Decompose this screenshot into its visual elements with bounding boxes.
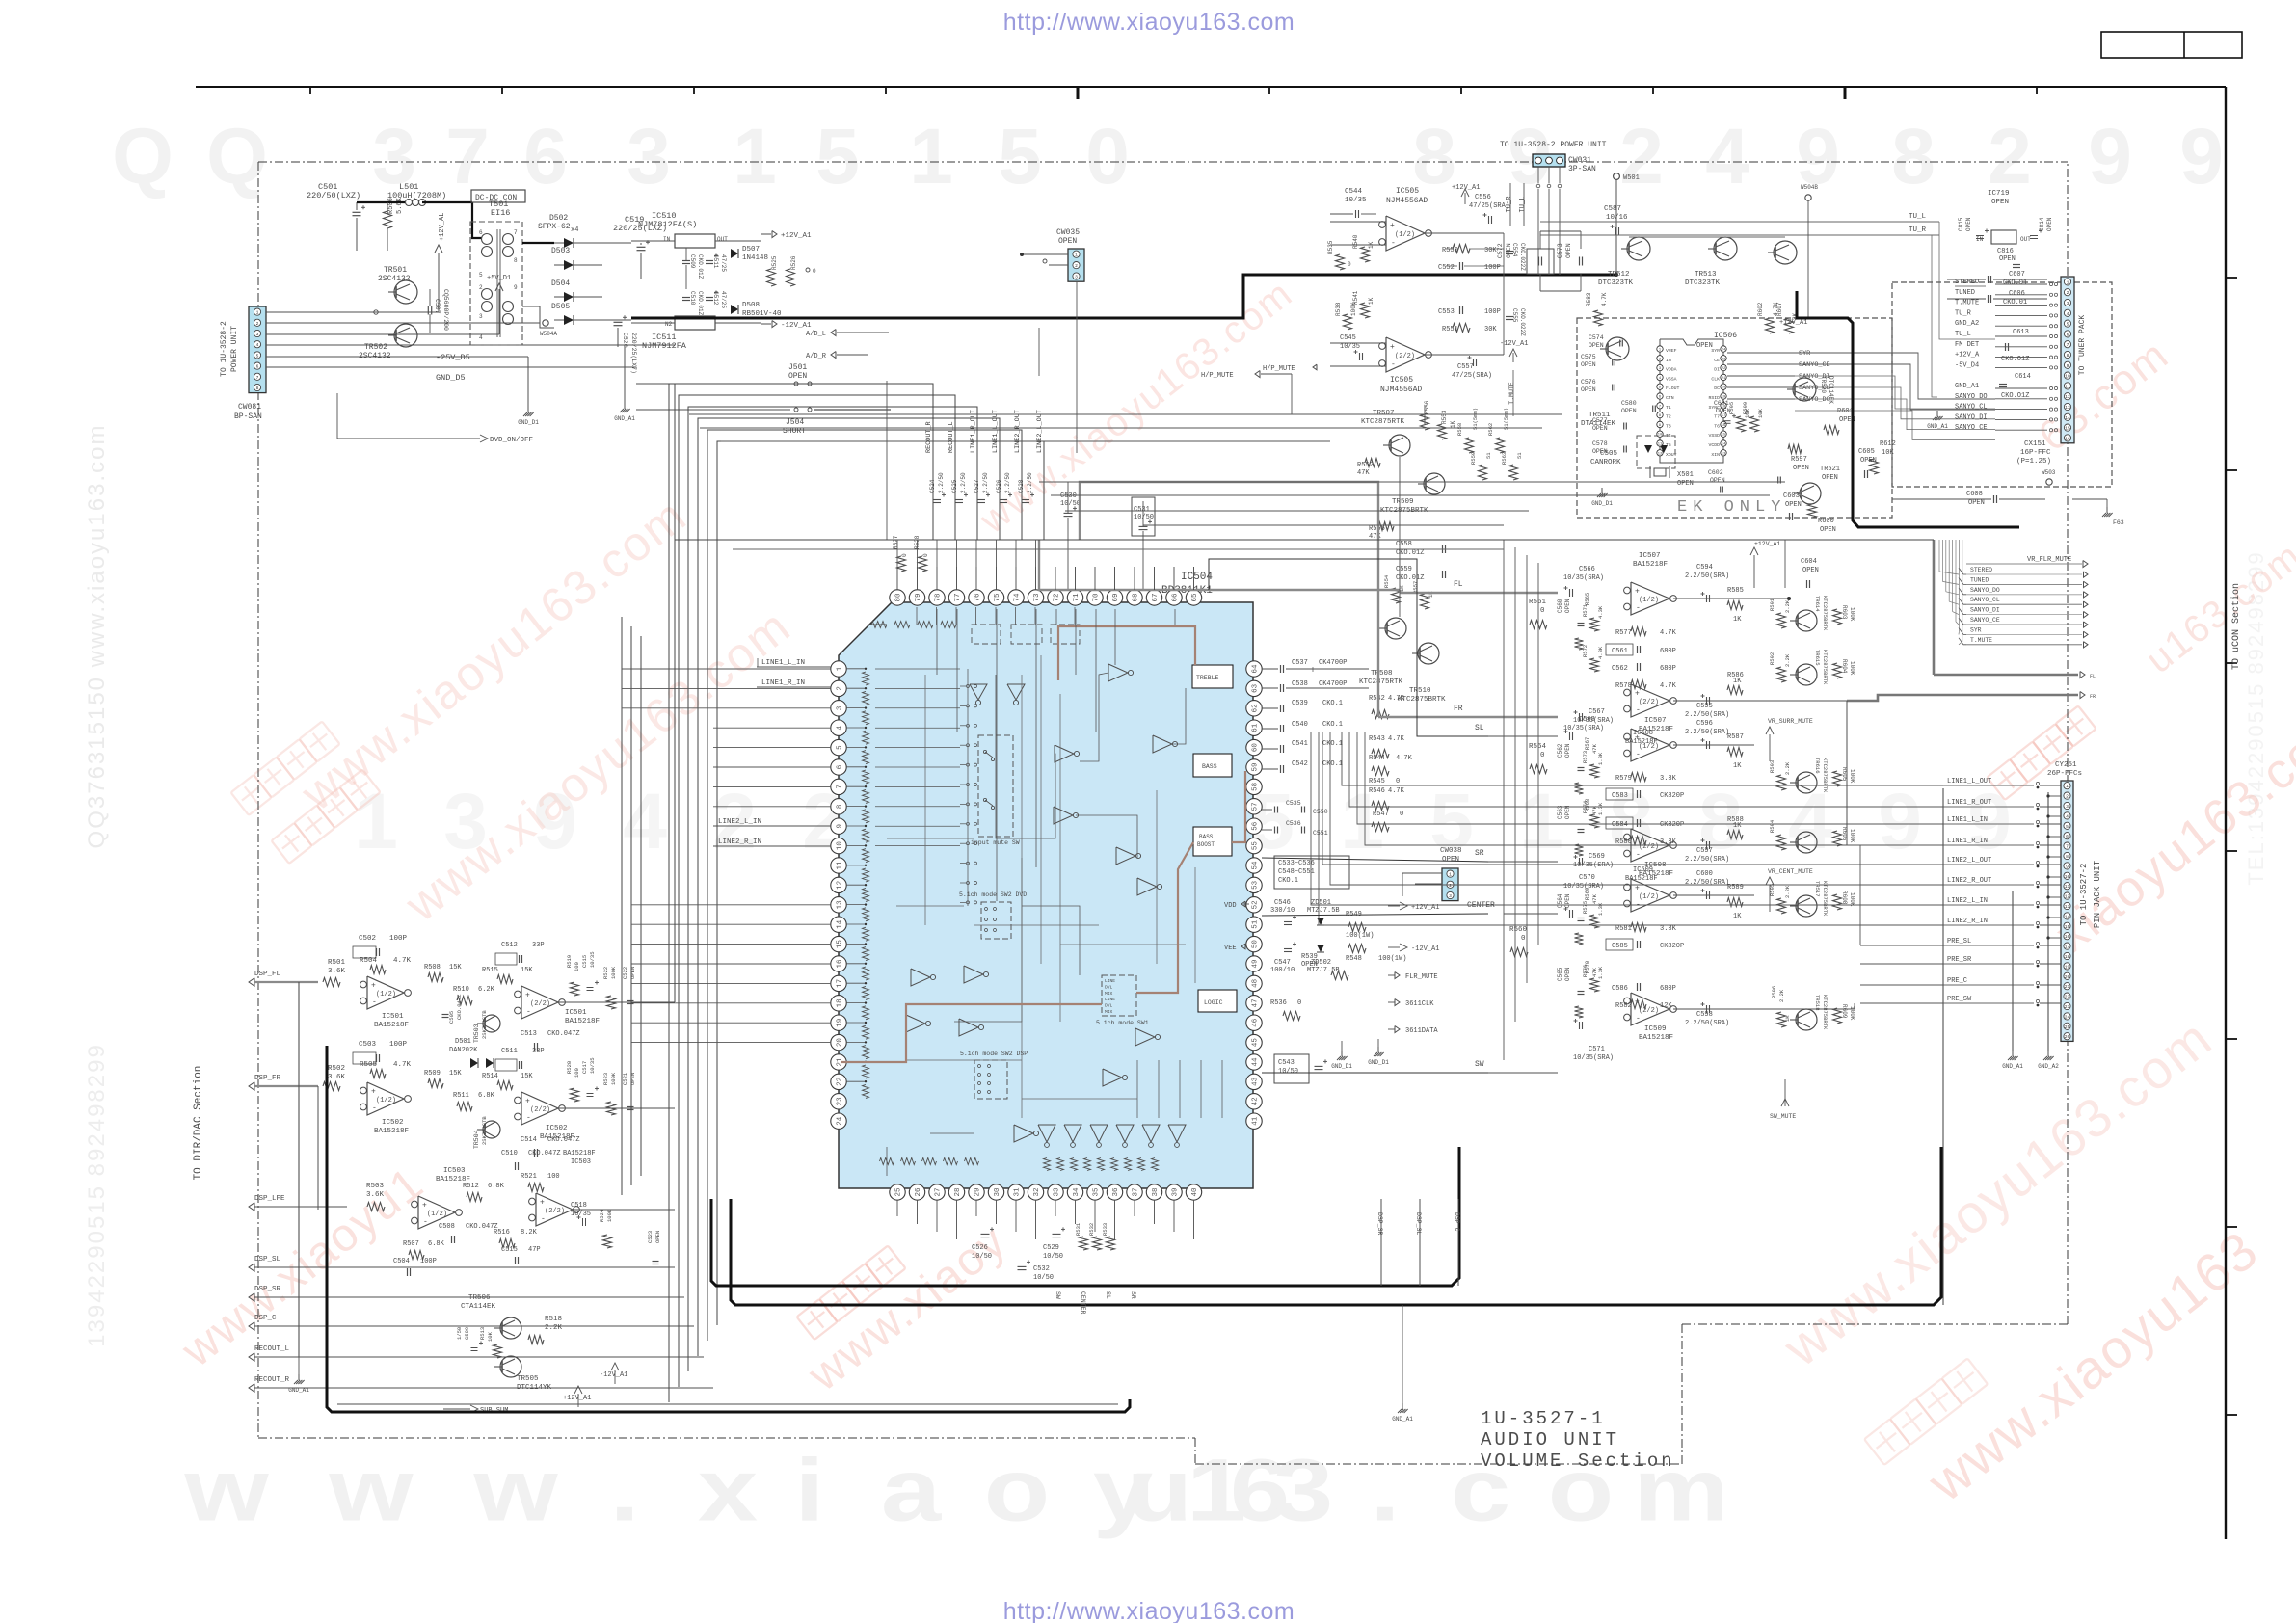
svg-text:R597: R597: [1791, 456, 1807, 464]
IC504 pin circles left column: [831, 661, 846, 677]
op-amp IC502 second: [521, 1092, 558, 1125]
svg-text:8: 8: [256, 386, 259, 391]
svg-text:OPEN: OPEN: [1696, 342, 1713, 350]
svg-text:OPEN: OPEN: [1589, 342, 1604, 349]
svg-text:CKO.047Z: CKO.047Z: [456, 994, 463, 1020]
svg-text:CK4700P: CK4700P: [1319, 680, 1347, 688]
svg-text:20: 20: [2065, 974, 2070, 980]
wire bold bottom route 1: [711, 1147, 1459, 1286]
svg-text:C574: C574: [1589, 334, 1604, 341]
svg-text:22: 22: [837, 1078, 844, 1086]
svg-text:15K: 15K: [521, 967, 533, 974]
svg-text:30K: 30K: [1484, 326, 1497, 333]
svg-text:EI16: EI16: [491, 208, 510, 218]
resistor R603 100K: [1833, 609, 1842, 625]
svg-text:SANYO_DI: SANYO_DI: [1799, 373, 1830, 381]
svg-text:OUT: OUT: [2020, 236, 2031, 243]
capacitor C537 CK4700P: [1262, 668, 1278, 670]
resistor R583 4.7K: [1594, 310, 1603, 326]
svg-text:IC503: IC503: [443, 1167, 466, 1175]
svg-text:C565: C565: [1557, 967, 1563, 981]
IC506 pin circles left: [1657, 346, 1663, 352]
svg-text:CQ5600P/200: CQ5600P/200: [442, 289, 449, 331]
svg-text:16: 16: [2065, 934, 2070, 940]
resistor R595 2.2K: [1777, 898, 1786, 914]
svg-text:LINE2_L_OUT: LINE2_L_OUT: [1036, 410, 1044, 453]
wires PRE nets: [1860, 945, 1943, 946]
svg-text:IC502: IC502: [382, 1119, 404, 1127]
capacitor C562 680P: [1637, 663, 1639, 671]
svg-text:C552: C552: [1438, 264, 1455, 272]
svg-text:R592: R592: [1769, 652, 1775, 665]
IC504 internal small dashed boxes top: [972, 625, 1001, 644]
svg-text:VOLUME Section: VOLUME Section: [1481, 1450, 1675, 1472]
svg-text:2: 2: [1619, 113, 1664, 200]
resistor R572 4.3K: [1590, 658, 1599, 672]
svg-text:R552: R552: [1357, 462, 1374, 469]
svg-text:15: 15: [2065, 426, 2070, 432]
svg-text:100: 100: [574, 1068, 580, 1078]
svg-text:R583: R583: [1586, 292, 1592, 306]
svg-text:TREBLE: TREBLE: [1196, 675, 1219, 681]
svg-text:62: 62: [1252, 704, 1260, 712]
regulator IC511 NJM7912FA: [675, 316, 715, 330]
svg-text:+: +: [1635, 998, 1640, 1007]
capacitor C553 100P: [1459, 306, 1461, 314]
svg-text:10: 10: [2065, 374, 2070, 380]
wires LINE nets from left: [1342, 732, 1943, 785]
svg-text:OPEN: OPEN: [1802, 567, 1819, 574]
svg-text:(1/2): (1/2): [427, 1211, 447, 1218]
arrow +12V_A1 power: [761, 233, 771, 235]
resistor R607 2K: [1785, 318, 1794, 333]
svg-text:CK820P: CK820P: [1660, 792, 1684, 800]
svg-text:C604: C604: [1801, 558, 1817, 566]
svg-text:1K: 1K: [1733, 616, 1742, 624]
svg-text:X501: X501: [1677, 471, 1694, 479]
ground GND_A1 tuner: [1933, 416, 1936, 420]
svg-text:6.2K: 6.2K: [478, 986, 495, 994]
svg-text:C587: C587: [1604, 205, 1621, 213]
arrow DSP_SR: [249, 1293, 254, 1301]
svg-text:2.2K: 2.2K: [1778, 989, 1785, 1002]
capacitor C507: [427, 306, 429, 315]
svg-text:TR502: TR502: [364, 343, 387, 352]
svg-text:BA15218F: BA15218F: [563, 1150, 596, 1157]
svg-text:C547: C547: [1274, 959, 1291, 967]
svg-text:QQ376315150 www.xiaoyu163.com: QQ376315150 www.xiaoyu163.com: [84, 424, 110, 849]
IC504 pin circles top row: [890, 590, 905, 605]
svg-text:LINE2_R_OUT: LINE2_R_OUT: [1947, 877, 1991, 885]
svg-text:GND_D1: GND_D1: [1591, 500, 1613, 507]
svg-text:DVL: DVL: [1105, 1003, 1113, 1009]
svg-text:-25V_D5: -25V_D5: [436, 353, 470, 362]
svg-text:C531: C531: [1134, 506, 1150, 514]
svg-text:680P: 680P: [1660, 648, 1676, 655]
svg-text:MTZJ7.5B: MTZJ7.5B: [1307, 907, 1340, 915]
svg-text:27: 27: [935, 1187, 943, 1196]
transistor TR510 KTC2875BRTK: [1418, 643, 1439, 664]
svg-text:BA15218F: BA15218F: [565, 1018, 600, 1025]
svg-text:C562: C562: [1557, 743, 1563, 758]
capacitor C561 680P: [1637, 646, 1639, 653]
transistor TR501 2SC4132: [394, 280, 417, 304]
svg-text:BA15218F: BA15218F: [1639, 1034, 1673, 1042]
svg-text:68: 68: [1133, 593, 1140, 601]
svg-text:C554: C554: [1511, 243, 1518, 257]
svg-text:LINE1_R_IN: LINE1_R_IN: [1947, 838, 1988, 845]
svg-text:CY251: CY251: [2055, 761, 2077, 769]
label box C533~C536 C548~C551: [1274, 856, 1349, 889]
svg-text:1K: 1K: [1368, 297, 1375, 305]
svg-text:C561: C561: [1612, 648, 1628, 655]
wire SL bus: [1209, 559, 1488, 736]
svg-text:BA15218F: BA15218F: [374, 1022, 409, 1029]
svg-text:AUDIO UNIT: AUDIO UNIT: [1481, 1429, 1619, 1450]
wire right mid vertical: [1846, 701, 1848, 845]
svg-text:CENTER: CENTER: [1080, 1291, 1086, 1315]
svg-text:76: 76: [974, 593, 982, 602]
svg-text:C568: C568: [1579, 716, 1595, 724]
svg-text:9: 9: [2067, 363, 2069, 369]
svg-text:10/35(SRA): 10/35(SRA): [1573, 1054, 1614, 1062]
svg-text:C503: C503: [359, 1041, 377, 1049]
svg-text:EK ONLY: EK ONLY: [1677, 498, 1786, 517]
svg-text:63: 63: [1252, 683, 1260, 693]
connector CX151 16P-FFC to tuner pack: [2061, 277, 2074, 443]
svg-text:49: 49: [1252, 959, 1260, 968]
svg-text:+12V_AL: +12V_AL: [439, 213, 446, 241]
svg-text:100P: 100P: [1484, 308, 1501, 316]
wire left vertical bundle: [621, 617, 623, 1195]
resistor R547 0: [1372, 823, 1389, 832]
svg-text:C502: C502: [359, 935, 376, 943]
svg-text:DSP_C: DSP_C: [1454, 1212, 1460, 1232]
svg-text:CW031: CW031: [1568, 156, 1591, 165]
resistor R544 R545 cluster: [1372, 767, 1389, 776]
transistor TR614 KTC2875BRTK: [1796, 610, 1817, 631]
SANYO net labels from IC506: [1727, 352, 1795, 354]
ground GND_D1 ek: [1597, 493, 1601, 497]
svg-text:R524: R524: [599, 1209, 605, 1222]
svg-text:R502: R502: [328, 1065, 345, 1073]
svg-text:T2: T2: [1666, 414, 1671, 420]
svg-text:47K: 47K: [1591, 967, 1598, 977]
resistors R558 R559 51(5mm): [1465, 438, 1474, 453]
svg-text:16: 16: [1722, 424, 1726, 428]
svg-text:2.2/50: 2.2/50: [1004, 472, 1011, 493]
svg-text:C532: C532: [1033, 1265, 1050, 1273]
resistor R526: [787, 269, 795, 286]
svg-text:C505: C505: [448, 1011, 455, 1024]
svg-text:R525: R525: [771, 255, 778, 270]
arrow DSP_SL: [249, 1264, 254, 1271]
svg-text:+: +: [540, 1199, 545, 1208]
svg-text:C559: C559: [1396, 566, 1412, 573]
resistor R606 100K: [1833, 831, 1842, 846]
svg-text:7: 7: [2067, 342, 2069, 348]
wire bold bottom route 2: [731, 1147, 1941, 1305]
svg-text:1: 1: [909, 113, 953, 200]
resistor R549 100(1W): [1348, 923, 1366, 932]
svg-text:14: 14: [837, 919, 844, 929]
svg-text:3: 3: [627, 113, 671, 200]
svg-text:IN: IN: [1666, 358, 1671, 363]
svg-text:T.MUTE: T.MUTE: [1508, 382, 1515, 405]
svg-text:C614: C614: [2015, 373, 2031, 381]
resistor R589 1K: [1727, 898, 1743, 907]
arrow DSP_C: [249, 1322, 254, 1330]
svg-text:3.6K: 3.6K: [328, 1074, 346, 1081]
svg-text:100P: 100P: [1484, 264, 1501, 272]
svg-text:R581: R581: [1615, 925, 1632, 933]
svg-text:VSSA: VSSA: [1666, 376, 1677, 382]
svg-text:CENTER: CENTER: [1467, 901, 1495, 910]
jumper J501 OPEN: [636, 383, 790, 385]
svg-text:9: 9: [514, 284, 518, 291]
svg-text:3.6K: 3.6K: [366, 1191, 385, 1199]
svg-text:SANYO_DO: SANYO_DO: [1799, 396, 1830, 404]
svg-text:IC507: IC507: [1644, 717, 1667, 725]
svg-text:GND_D1: GND_D1: [518, 419, 539, 426]
ground GND_A1 bottom: [1402, 1305, 1403, 1405]
svg-text:28: 28: [954, 1187, 962, 1196]
svg-text:IC503: IC503: [571, 1158, 591, 1166]
svg-text:DVD_ON/OFF: DVD_ON/OFF: [490, 437, 533, 444]
op-amp U IC504 BD3811K1 block: [839, 602, 1253, 1188]
svg-text:100K: 100K: [1849, 661, 1855, 676]
svg-text:21: 21: [1722, 377, 1726, 381]
svg-text:0: 0: [813, 268, 816, 275]
svg-text:DSP_FR: DSP_FR: [254, 1075, 281, 1082]
svg-text:15: 15: [1722, 434, 1726, 438]
svg-text:8: 8: [1412, 113, 1456, 200]
svg-text:2: 2: [2066, 794, 2069, 800]
svg-text:LINE1_L_OUT: LINE1_L_OUT: [992, 410, 1000, 453]
svg-text:VEE: VEE: [1224, 945, 1237, 952]
frame right border line: [2225, 87, 2227, 1539]
svg-text:OPEN: OPEN: [1968, 499, 1985, 507]
svg-text:GND_A1: GND_A1: [1392, 1416, 1413, 1423]
svg-text:C595: C595: [1696, 703, 1713, 710]
svg-text:18: 18: [2065, 954, 2070, 960]
svg-text:OPEN: OPEN: [1581, 386, 1596, 393]
svg-text:14: 14: [2065, 914, 2070, 919]
svg-text:GND_D1: GND_D1: [1368, 1059, 1389, 1066]
svg-text:C540: C540: [1292, 721, 1308, 729]
svg-text:8: 8: [514, 257, 518, 264]
svg-text:CK820P: CK820P: [1660, 943, 1684, 950]
svg-text:A/D_L: A/D_L: [806, 331, 826, 338]
svg-text:C597: C597: [1696, 847, 1713, 855]
svg-text:26P-FFCs: 26P-FFCs: [2047, 770, 2082, 778]
svg-text:10/50: 10/50: [1033, 1274, 1054, 1282]
IC504 internal input mute switch: [978, 735, 1013, 837]
svg-text:TR521: TR521: [1820, 466, 1840, 473]
svg-text:R558: R558: [1456, 423, 1463, 436]
svg-text:VR_SURR_MUTE: VR_SURR_MUTE: [1768, 718, 1813, 725]
op-amp IC501 second: [521, 986, 558, 1019]
svg-text:+5V_D1: +5V_D1: [487, 275, 511, 282]
svg-text:10/35: 10/35: [589, 1057, 596, 1074]
svg-text:A/D_R: A/D_R: [806, 353, 827, 360]
svg-text:D501: D501: [455, 1038, 471, 1046]
svg-text:C548~C551: C548~C551: [1278, 868, 1315, 876]
svg-text:3: 3: [1273, 1440, 1333, 1539]
svg-text:2: 2: [1988, 113, 2032, 200]
diode D508 RB501V-40: [731, 305, 738, 314]
svg-text:SYR: SYR: [1711, 348, 1720, 354]
svg-text:100P: 100P: [420, 1258, 437, 1265]
arrow DSP_LFE: [249, 1203, 254, 1211]
svg-text:51(5mm): 51(5mm): [1503, 408, 1509, 430]
svg-text:6.8K: 6.8K: [488, 1183, 505, 1190]
svg-text:x: x: [698, 1440, 758, 1539]
svg-text:Q: Q: [112, 113, 174, 200]
svg-text:10K: 10K: [1757, 408, 1764, 418]
svg-text:C551: C551: [1313, 830, 1328, 837]
svg-text:CKO.047Z: CKO.047Z: [547, 1136, 580, 1144]
svg-text:100K: 100K: [610, 966, 617, 979]
svg-text:11: 11: [2065, 884, 2070, 890]
svg-text:RECOUT_L: RECOUT_L: [948, 421, 955, 453]
svg-text:OPEN: OPEN: [1592, 448, 1608, 455]
svg-text:+: +: [1390, 222, 1395, 230]
svg-text:-12V_A1: -12V_A1: [1411, 945, 1439, 953]
svg-text:-: -: [423, 1218, 428, 1227]
svg-text:C512: C512: [501, 942, 518, 949]
svg-text:IN: IN: [663, 236, 671, 243]
svg-text:74: 74: [1014, 593, 1022, 602]
resistor R578 4.7K: [1631, 680, 1646, 689]
IC504 internal vertical drops from top pins: [916, 607, 918, 625]
svg-text:R514: R514: [482, 1073, 498, 1080]
svg-text:8.2K: 8.2K: [521, 1229, 538, 1237]
capacitor C509: [682, 260, 690, 262]
svg-text:CANRORK: CANRORK: [1590, 459, 1621, 466]
svg-text:(2/2): (2/2): [545, 1208, 565, 1215]
svg-text:R539: R539: [1301, 953, 1318, 961]
svg-text:OPEN: OPEN: [1822, 474, 1838, 482]
svg-text:C558: C558: [1396, 541, 1412, 548]
svg-text:OPEN: OPEN: [1581, 361, 1596, 368]
svg-text:R542: R542: [1369, 695, 1385, 703]
svg-text:BOOST: BOOST: [1197, 841, 1215, 848]
svg-text:2.2/50(SRA): 2.2/50(SRA): [1685, 879, 1729, 887]
svg-text:GND_A2: GND_A2: [1955, 320, 1979, 328]
svg-text:13: 13: [837, 900, 844, 910]
svg-text:R504: R504: [360, 957, 378, 965]
svg-text:OPEN: OPEN: [1565, 243, 1572, 258]
svg-text:4.7K: 4.7K: [1396, 755, 1413, 762]
overline TUNED: [1955, 285, 1986, 287]
svg-text:11: 11: [837, 861, 844, 870]
resistor R581 3.3K: [1631, 923, 1646, 932]
svg-text:45: 45: [1252, 1038, 1260, 1048]
svg-text:TO 1U-3528-2 POWER UNIT: TO 1U-3528-2 POWER UNIT: [1500, 141, 1607, 149]
svg-text:LINE1_L_OUT: LINE1_L_OUT: [1947, 778, 1991, 785]
svg-text:30: 30: [994, 1187, 1001, 1197]
svg-text:24: 24: [837, 1116, 844, 1126]
svg-text:5: 5: [256, 353, 259, 359]
svg-text:R595: R595: [1769, 884, 1775, 896]
svg-text:680P: 680P: [1660, 985, 1676, 993]
svg-text:TR508: TR508: [1371, 670, 1393, 678]
frame right tick marks: [2226, 277, 2237, 279]
svg-text:LINE: LINE: [1105, 997, 1115, 1002]
svg-text:33P: 33P: [532, 1048, 545, 1055]
svg-text:http://www.xiaoyu163.com: http://www.xiaoyu163.com: [1003, 1598, 1295, 1623]
svg-text:58: 58: [1252, 783, 1260, 791]
svg-text:47K: 47K: [1591, 743, 1598, 754]
svg-text:(2/2): (2/2): [1395, 353, 1415, 360]
svg-text:.: .: [1370, 1440, 1400, 1539]
svg-text:72: 72: [1054, 593, 1061, 601]
svg-text:47K: 47K: [1357, 469, 1370, 477]
svg-text:C573: C573: [1557, 243, 1563, 258]
svg-text:1: 1: [837, 666, 844, 671]
svg-text:2: 2: [1075, 263, 1078, 269]
svg-text:R545: R545: [1369, 778, 1385, 785]
svg-text:R526: R526: [790, 255, 797, 270]
svg-text:R510: R510: [453, 986, 469, 994]
ground GND_D1 right: [1377, 1039, 1379, 1049]
svg-text:10/35: 10/35: [589, 951, 596, 968]
svg-text:-: -: [526, 1114, 531, 1123]
svg-text:2SK771STB: 2SK771STB: [481, 1116, 488, 1145]
svg-text:SW: SW: [1055, 1291, 1061, 1299]
svg-text:GND_D1: GND_D1: [1331, 1063, 1352, 1070]
op-amp IC508 second half: [1631, 829, 1669, 862]
IC504 internal bottom op-amp row: [1038, 1125, 1055, 1142]
svg-text:DTC323TK: DTC323TK: [1598, 279, 1634, 287]
svg-text:KTC2875BRTK: KTC2875BRTK: [1822, 650, 1829, 685]
transistor TR521b detail resistors: [1788, 445, 1802, 454]
svg-text:R585: R585: [1727, 587, 1744, 595]
svg-text:C566: C566: [1579, 566, 1595, 573]
svg-text:CKO.01: CKO.01: [2003, 299, 2027, 306]
svg-text:14: 14: [2065, 415, 2070, 421]
op-amp IC501 first: [367, 976, 404, 1009]
svg-text:R548: R548: [1346, 955, 1362, 963]
svg-text:C511: C511: [501, 1048, 518, 1055]
svg-text:BP-SAN: BP-SAN: [234, 412, 262, 421]
svg-text:R572: R572: [1582, 645, 1589, 657]
svg-text:H/P_MUTE: H/P_MUTE: [1201, 372, 1234, 380]
svg-text:R612: R612: [1880, 440, 1896, 448]
resistor R556 1K: [1421, 414, 1429, 430]
svg-text:DC: DC: [1714, 386, 1720, 391]
svg-text:26: 26: [2065, 1034, 2070, 1040]
vertical wires LINE outputs to IC: [669, 384, 933, 1402]
capacitor C583 CK820P: [1637, 790, 1639, 798]
svg-text:CE: CE: [1714, 358, 1720, 363]
svg-text:10/35: 10/35: [571, 1211, 591, 1218]
svg-text:TU_L: TU_L: [1955, 331, 1971, 338]
svg-text:J501: J501: [788, 363, 807, 372]
svg-text:55: 55: [1252, 841, 1260, 851]
svg-text:OPEN: OPEN: [1621, 408, 1637, 414]
svg-text:C575: C575: [1581, 354, 1596, 360]
svg-text:C576: C576: [1581, 379, 1596, 386]
svg-text:3: 3: [479, 313, 483, 320]
svg-text:31: 31: [1014, 1187, 1022, 1197]
svg-text:6: 6: [2066, 834, 2069, 839]
svg-text:20: 20: [1722, 386, 1726, 390]
svg-text:OPEN: OPEN: [1442, 856, 1459, 864]
svg-text:C513: C513: [521, 1030, 537, 1038]
svg-text:a: a: [881, 1440, 942, 1539]
